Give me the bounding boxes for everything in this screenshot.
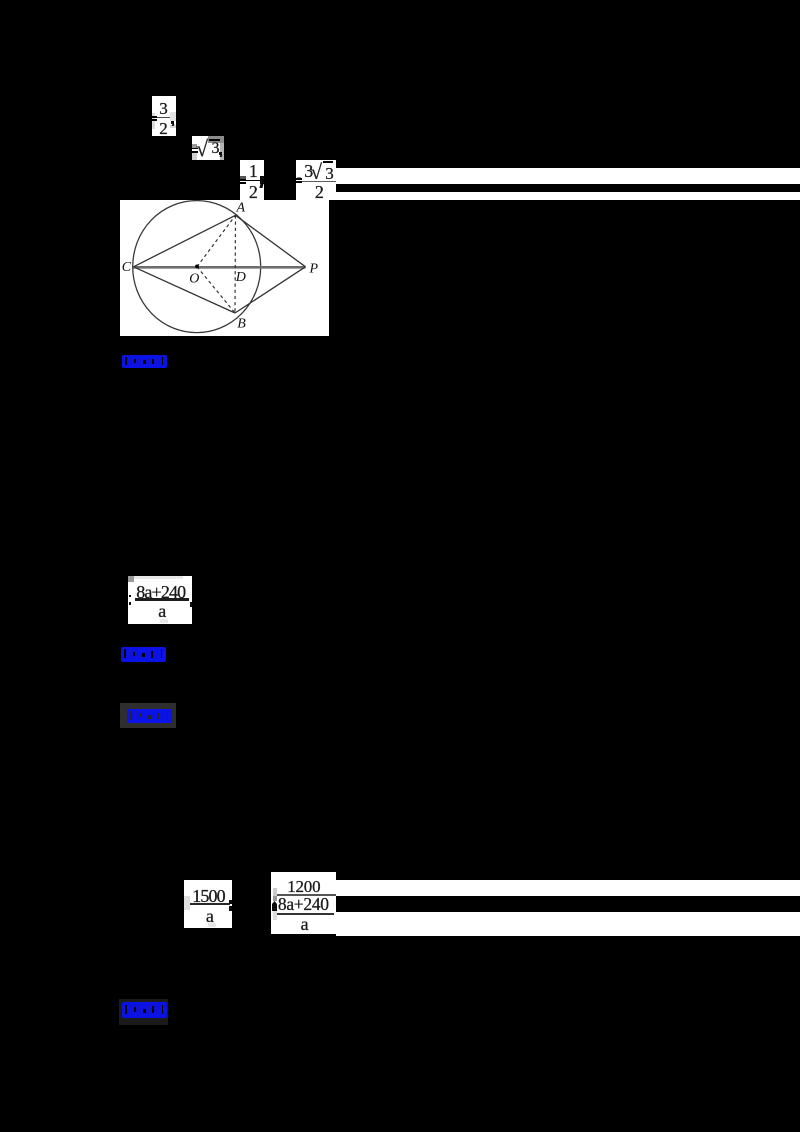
svg-text:C: C (122, 260, 132, 275)
svg-text:D: D (235, 270, 246, 285)
svg-text:O: O (189, 271, 199, 286)
svg-text:B: B (237, 316, 246, 331)
svg-text:A: A (236, 200, 246, 215)
svg-text:P: P (309, 261, 319, 276)
